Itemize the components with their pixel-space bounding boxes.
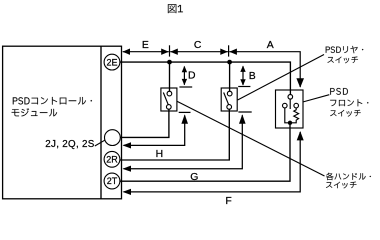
G top tick <box>238 111 251 113</box>
svg-text:2R: 2R <box>106 155 118 165</box>
D base tick <box>179 86 192 88</box>
leader to PSD rear switch label <box>238 55 324 101</box>
S3 lever <box>289 99 291 109</box>
S3 bottom junction dot <box>288 121 292 125</box>
arrowhead F up <box>297 131 304 140</box>
svg-text:2E: 2E <box>106 57 117 67</box>
PSD control module U1 box <box>3 46 122 199</box>
svg-text:D: D <box>188 70 196 81</box>
S2 bottom contact <box>227 105 232 110</box>
arrowhead H up <box>181 114 188 124</box>
terminal 2J/2Q/2S (unlabeled circle) <box>105 130 121 146</box>
wire F path: S3 to 2T <box>124 132 301 192</box>
wire: drop to switch S2 <box>229 62 231 91</box>
label 各ハンドル・スイッチ <box>326 173 371 180</box>
figure caption 図1 <box>168 4 183 13</box>
arrowhead F left <box>123 189 132 195</box>
arrowhead C left <box>170 49 178 55</box>
node J1 junction dot <box>167 60 172 65</box>
wire label E dimension line <box>123 51 169 53</box>
arrowhead A left <box>229 49 237 55</box>
leader to handle switch label <box>177 101 324 176</box>
arrowhead E right <box>161 49 169 55</box>
S3 right contact <box>294 103 299 108</box>
label PSDリヤ・スイッチ <box>326 46 364 53</box>
svg-text:F: F <box>225 196 231 207</box>
wire G path: S2 to 2R <box>124 115 243 168</box>
leader to PSD front switch label <box>303 95 329 102</box>
arrowhead C right <box>220 49 228 55</box>
arrowhead H left <box>123 142 132 148</box>
wire: drop to switch S1 <box>169 62 171 91</box>
node J2 junction dot <box>227 60 232 65</box>
S2 lever <box>224 93 229 105</box>
arrowhead G up <box>239 114 246 124</box>
S3 common contact <box>288 95 293 100</box>
arrowhead A down at S3 <box>296 78 304 88</box>
wire label B dimension arrow <box>242 66 244 85</box>
svg-text:C: C <box>194 40 202 51</box>
switch S2 (PSD rear switch) box <box>221 88 237 111</box>
svg-text:2T: 2T <box>107 176 118 186</box>
wire label D dimension arrow <box>183 67 185 85</box>
module label PSDコントロール・モジュール <box>13 97 92 105</box>
resistor R1 inside S3 <box>290 108 299 123</box>
S1 lever <box>163 93 168 105</box>
terminal 2E <box>104 54 120 70</box>
module connector strip divider <box>100 46 102 199</box>
wire: S3 bottom to terminal 2T <box>120 125 290 181</box>
wire: 2E to switch S3 top (main bus) <box>120 62 291 94</box>
leader from 2J,2Q,2S label to terminal <box>95 140 105 146</box>
svg-text:B: B <box>249 71 256 82</box>
S1 bottom contact <box>166 105 171 110</box>
tick at node J1 <box>169 45 171 56</box>
wire label A dimension line to S3 <box>229 52 300 87</box>
tick at node J2 <box>228 45 230 56</box>
arrowhead G left <box>123 166 132 172</box>
switch S3 (PSD front switch) box <box>276 90 304 128</box>
H top tick <box>179 111 191 113</box>
svg-text:E: E <box>142 40 149 51</box>
svg-text:2J, 2Q, 2S: 2J, 2Q, 2S <box>45 139 94 150</box>
S2 top contact <box>227 91 232 96</box>
svg-text:H: H <box>156 149 164 160</box>
wire: S2 bottom to terminal 2R <box>120 109 229 160</box>
wire: S1 bottom to terminal 2J/2Q/2S <box>120 109 169 137</box>
svg-text:A: A <box>267 40 274 51</box>
S3 left contact lead <box>285 108 288 123</box>
B base tick <box>238 86 250 88</box>
switch S1 (handle switch) box <box>161 88 177 111</box>
svg-text:G: G <box>190 172 198 183</box>
wire label C dimension line <box>170 51 228 53</box>
terminal 2T <box>104 173 120 189</box>
arrowhead E left <box>122 49 130 55</box>
S1 top contact <box>167 91 172 96</box>
S3 left contact <box>283 103 288 108</box>
wire H path: S1 to 2J/2Q/2S <box>124 116 185 146</box>
terminal 2R <box>104 151 120 167</box>
label PSD フロント・スイッチ <box>330 88 348 95</box>
